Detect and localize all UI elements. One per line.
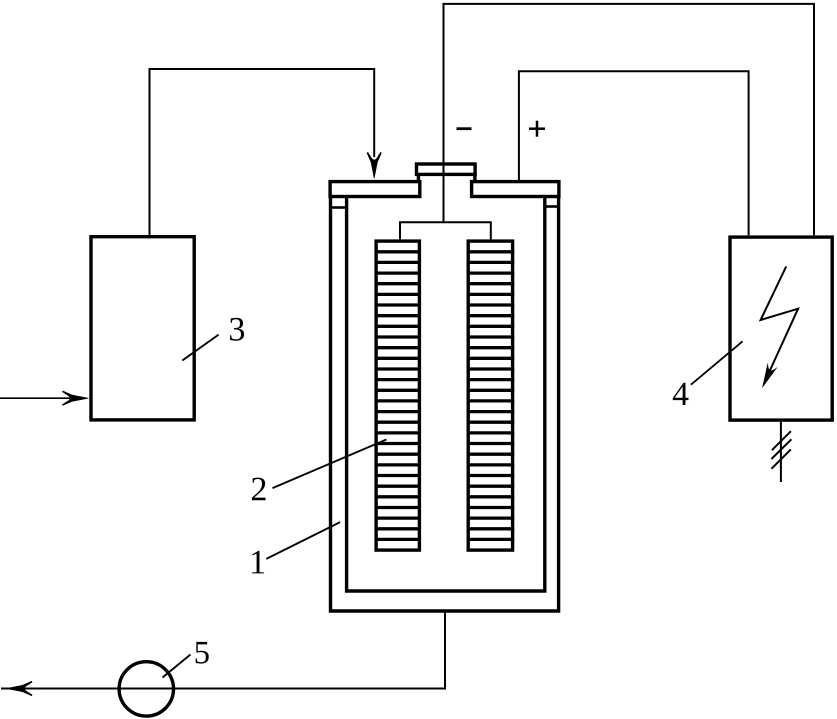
wire: plus lead from lid to box 4 (519, 71, 749, 235)
electrode stack 2 (left) (375, 241, 422, 550)
leader line for label 5 (163, 655, 191, 678)
label 5 (pump) (196, 642, 209, 664)
jacket tick left (331, 206, 346, 209)
label 4 (power source) (673, 383, 689, 405)
ground tick 3 (771, 449, 790, 468)
leader line for label 1 (266, 522, 340, 559)
pump 5 (circle) (119, 662, 173, 716)
arrowhead: outlet to left (6, 684, 30, 693)
ground tick 2 (771, 439, 791, 459)
wire: minus lead from top rail down to cap (444, 4, 815, 235)
lightning bolt (761, 266, 799, 378)
cap neck right (473, 174, 476, 182)
electrode stack (right) (467, 241, 515, 550)
arrowhead: inlet (65, 394, 89, 403)
box 3 (feed unit) (91, 237, 194, 420)
wire: feed line from box 3 top over to vessel lid (150, 69, 375, 235)
outlet pipe from vessel bottom (1, 611, 445, 689)
lid: right segment (472, 182, 559, 197)
wire: electrode feed through cap down to bus (443, 160, 445, 222)
jacket tick right (545, 205, 558, 208)
cap on lid (417, 164, 476, 174)
lightning arrowhead (763, 364, 777, 388)
ground tick 1 (772, 431, 791, 450)
cap neck left (417, 174, 420, 182)
label 3 (feed unit) (230, 318, 244, 341)
wire: inlet into box 3 (0, 397, 70, 399)
leader line for label 4 (691, 341, 743, 384)
wire: electrode bus with drops (400, 222, 491, 241)
box 4 (power source) (730, 237, 832, 420)
label 1 (vessel) (252, 551, 264, 574)
lid: left segment (330, 182, 420, 197)
label minus terminal (457, 127, 472, 130)
leader line for label 2 (273, 440, 387, 489)
label plus terminal (529, 127, 545, 130)
arrowhead down onto lid (370, 155, 379, 179)
vessel 1: outer wall (331, 198, 559, 612)
leader line for label 3 (182, 335, 218, 361)
vessel: inner wall (347, 198, 545, 592)
label 2 (electrode stack) (252, 478, 266, 501)
ground lead below box 4 (780, 419, 782, 482)
